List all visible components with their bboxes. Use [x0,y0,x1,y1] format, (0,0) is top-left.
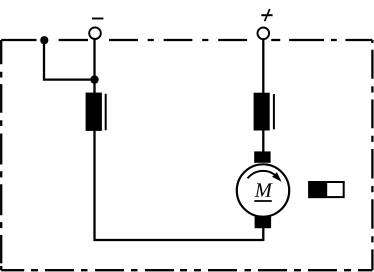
housing border bottom (dash-dot screen) [1,269,372,271]
node A junction dot [90,75,98,83]
permanent magnet symbol [308,181,344,198]
wire choke L1 down and along bottom to motor [95,131,264,241]
wire minus terminal down through node A to choke L1 [93,39,95,93]
junction dot on housing [40,36,48,44]
wire bottom up to motor lower brush [262,227,264,241]
terminal plus [258,9,273,39]
wire choke L2 down to motor upper brush [262,130,264,153]
suppression choke L1 (left) [86,93,106,131]
housing border right (dash-dot screen) [371,40,373,270]
housing border top (dash-dot screen) [1,39,372,41]
wire plus terminal down to choke L2 [262,39,264,93]
wire from housing junction down and right to node A [44,40,95,80]
suppression choke L2 (right) [254,93,274,131]
housing border left (dash-dot screen) [0,40,2,270]
motor M1 [237,151,289,228]
terminal minus [89,19,103,40]
